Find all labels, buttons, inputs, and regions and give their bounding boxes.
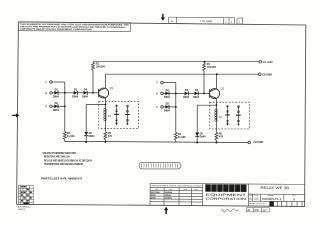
svg-text:RESISTORS ARE 1/4W; 10%: RESISTORS ARE 1/4W; 10% bbox=[44, 156, 71, 159]
svg-text:1: 1 bbox=[231, 20, 233, 24]
svg-text:B: B bbox=[250, 197, 252, 201]
svg-text:b: b bbox=[293, 197, 295, 201]
svg-text:A-PL-W608-0-1: A-PL-W608-0-1 bbox=[18, 205, 30, 208]
svg-text:D662: D662 bbox=[151, 195, 157, 197]
svg-text:d: d bbox=[206, 187, 209, 193]
svg-text:49: 49 bbox=[247, 208, 251, 212]
svg-text:CORPORATION: CORPORATION bbox=[206, 197, 247, 201]
svg-text:1: 1 bbox=[239, 20, 241, 24]
svg-text:D664: D664 bbox=[151, 197, 157, 200]
svg-text:DEC2894: DEC2894 bbox=[151, 191, 161, 194]
svg-text:TRANSISTORS ARE DEC2894 2N2894: TRANSISTORS ARE DEC2894 2N2894B bbox=[44, 163, 83, 166]
svg-text:C8 GND: C8 GND bbox=[253, 140, 263, 144]
svg-text:i: i bbox=[213, 187, 214, 193]
svg-text:2: 2 bbox=[225, 19, 227, 23]
svg-text:UNLESS OTHERWISE INDICATED:: UNLESS OTHERWISE INDICATED: bbox=[43, 152, 77, 155]
svg-text:RELAYS ARE WHEELOCK 8MA-5A-1C: RELAYS ARE WHEELOCK 8MA-5A-1C OR EQUIV bbox=[44, 159, 92, 162]
svg-text:906: 906 bbox=[254, 208, 259, 212]
svg-text:1-TD-6288: 1-TD-6288 bbox=[200, 19, 213, 23]
svg-text:TRANSISTOR & DIODE CONVERSION: TRANSISTOR & DIODE CONVERSION CHART bbox=[151, 184, 202, 187]
svg-text:l: l bbox=[243, 187, 244, 193]
svg-text:COPYRIGHT 1966 BY DIGITAL EQUI: COPYRIGHT 1966 BY DIGITAL EQUIPMENT CORP… bbox=[20, 28, 93, 32]
svg-text:A: A bbox=[171, 19, 173, 23]
svg-text:g: g bbox=[218, 187, 221, 193]
svg-text:CS: CS bbox=[254, 197, 258, 201]
svg-text:1N645: 1N645 bbox=[165, 194, 172, 197]
svg-text:PARTS LIST A-PL-W608-0-0: PARTS LIST A-PL-W608-0-0 bbox=[41, 178, 83, 181]
svg-text:117: 117 bbox=[262, 208, 267, 212]
svg-text:C4 +10V: C4 +10V bbox=[263, 60, 273, 64]
svg-text:PRINTED CIRCUIT REV.: PRINTED CIRCUIT REV. bbox=[249, 203, 266, 205]
svg-text:RELAY WE 3B: RELAY WE 3B bbox=[260, 186, 289, 190]
svg-text:2N2894: 2N2894 bbox=[165, 191, 173, 194]
svg-text:W608-0-1: W608-0-1 bbox=[262, 197, 283, 201]
svg-text:DRB 102: DRB 102 bbox=[18, 209, 25, 211]
svg-text:C6 GND: C6 GND bbox=[262, 72, 272, 76]
svg-text:i: i bbox=[225, 187, 226, 193]
svg-text:1N3606: 1N3606 bbox=[165, 198, 173, 200]
